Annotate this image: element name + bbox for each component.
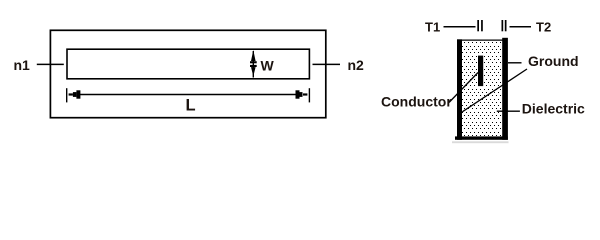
svg-text:Ground: Ground xyxy=(528,53,579,69)
svg-text:n2: n2 xyxy=(348,57,365,73)
svg-text:L: L xyxy=(186,96,196,114)
svg-text:T2: T2 xyxy=(536,19,551,34)
svg-text:W: W xyxy=(261,57,275,73)
svg-text:Dielectric: Dielectric xyxy=(522,101,585,117)
svg-text:Conductor: Conductor xyxy=(381,94,452,110)
svg-text:n1: n1 xyxy=(14,57,31,73)
svg-text:T1: T1 xyxy=(425,19,440,34)
